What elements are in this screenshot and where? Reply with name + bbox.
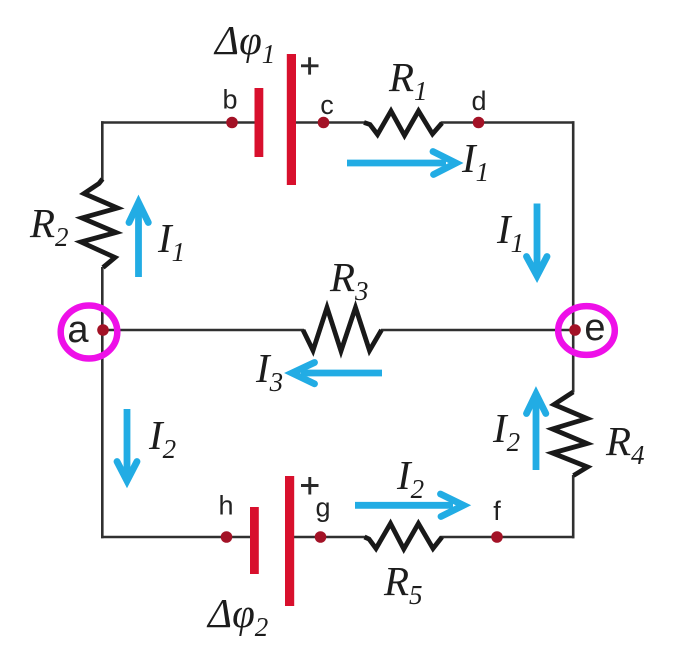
- wire top-left segment b to battery: [101, 121, 255, 124]
- node d: [473, 117, 485, 129]
- battery B1 (top, Δφ1): [255, 54, 297, 185]
- wire bottom-left segment h to battery: [101, 536, 250, 539]
- resistor R5: [365, 524, 443, 550]
- wire middle right of R3: [381, 329, 573, 332]
- wire bottom right after R5: [441, 536, 575, 539]
- node g: [315, 531, 327, 543]
- svg-text:b: b: [222, 85, 237, 115]
- svg-text:c: c: [320, 90, 334, 120]
- current arrow I2 left (downward): [117, 409, 137, 481]
- node b: [226, 117, 238, 129]
- node f: [491, 531, 503, 543]
- battery B2 plus sign: [301, 477, 319, 495]
- wire right vertical lower: [572, 475, 575, 538]
- resistor R2: [81, 179, 118, 268]
- current arrow I2 right (upward): [527, 394, 546, 470]
- wire top right after R1: [441, 121, 575, 124]
- svg-text:g: g: [315, 493, 330, 523]
- current arrow I1 top (rightward): [347, 152, 456, 175]
- battery B2 (bottom, Δφ2): [250, 476, 294, 606]
- highlight circle around node a: [61, 306, 118, 359]
- node e: [569, 324, 581, 336]
- battery B1 plus sign: [301, 57, 319, 74]
- current arrow I1 left (upward): [129, 203, 148, 278]
- resistor R3: [303, 308, 382, 352]
- node c: [318, 117, 330, 129]
- node a: [97, 324, 109, 336]
- current arrow I3 (leftward): [292, 363, 382, 384]
- highlight circle around node e: [558, 306, 615, 355]
- current arrow I2 bottom (rightward): [355, 494, 464, 517]
- node h: [221, 531, 233, 543]
- wire left vertical upper: [101, 121, 104, 181]
- wire left vertical lower: [101, 267, 104, 538]
- wire bottom segment g to R5: [294, 536, 366, 539]
- wire right vertical upper: [572, 121, 575, 392]
- svg-text:d: d: [471, 86, 486, 116]
- resistor R1: [364, 111, 442, 136]
- svg-text:h: h: [218, 491, 233, 521]
- wire top-right segment c to d to corner: [296, 121, 365, 124]
- current arrow I1 right (downward): [527, 204, 548, 276]
- resistor R4: [553, 392, 588, 476]
- svg-text:f: f: [493, 496, 501, 526]
- wire middle left of R3: [102, 329, 304, 332]
